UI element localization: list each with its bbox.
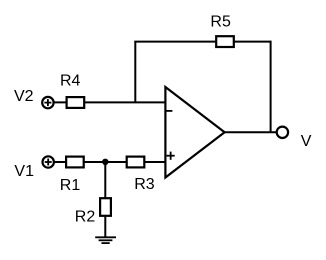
- label R4: [60, 73, 81, 90]
- ground: [95, 237, 116, 243]
- svg-text:R5: R5: [210, 14, 231, 31]
- label R5: [210, 14, 231, 31]
- resistor R3: [127, 157, 145, 168]
- resistor R5: [216, 36, 234, 47]
- wire vertical riser from inverting node up to R5 feedback: [134, 42, 136, 103]
- svg-text:V: V: [301, 133, 312, 150]
- node A junction dot: [102, 159, 108, 165]
- terminal V output: [277, 127, 288, 138]
- label V2: [14, 88, 34, 105]
- op-amp U1: [165, 87, 224, 178]
- svg-text:R3: R3: [134, 176, 155, 193]
- label R1: [60, 177, 81, 194]
- wire vertical drop from R5 to output node: [270, 41, 272, 133]
- label R3: [134, 176, 155, 193]
- terminal V2: [42, 97, 53, 108]
- resistor R1: [66, 157, 84, 168]
- svg-text:V1: V1: [14, 163, 34, 180]
- wire op-amp output to terminal V: [225, 131, 277, 133]
- terminal V1: [43, 156, 54, 167]
- wire node A down through R2 to ground: [104, 162, 106, 237]
- label V1: [14, 163, 34, 180]
- svg-text:R4: R4: [60, 73, 81, 90]
- svg-text:R1: R1: [60, 177, 81, 194]
- label R2: [75, 209, 96, 226]
- wire R5 feedback top run: [134, 41, 270, 43]
- wire V1 terminal through R1, node A, R3 to op-amp non-inverting input: [53, 161, 165, 163]
- resistor R2: [100, 198, 111, 216]
- resistor R4: [67, 97, 85, 108]
- svg-text:R2: R2: [75, 209, 96, 226]
- label V: [301, 133, 312, 150]
- wire V2 terminal to R4 and R4 to op-amp inverting input: [53, 101, 165, 103]
- svg-text:V2: V2: [14, 88, 34, 105]
